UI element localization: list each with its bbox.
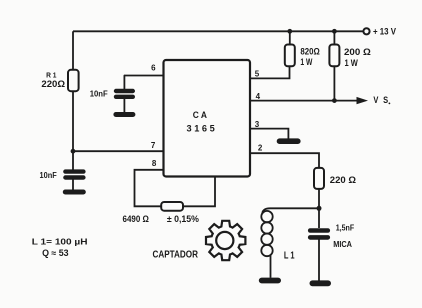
svg-text:220Ω: 220Ω: [41, 79, 65, 89]
svg-text:200 Ω: 200 Ω: [344, 47, 371, 57]
svg-text:6: 6: [151, 64, 156, 73]
ground below C1: [116, 112, 133, 117]
svg-text:7: 7: [151, 141, 156, 150]
wire pin 3 to ground: [250, 129, 288, 139]
svg-text:V: V: [373, 95, 378, 105]
inductor L1: [261, 211, 272, 256]
wire R5 right to IC bottom pin: [183, 177, 215, 207]
svg-text:820Ω: 820Ω: [300, 46, 319, 56]
svg-text:1 W: 1 W: [300, 57, 312, 67]
svg-text:2: 2: [258, 144, 263, 153]
wire pin 2 to resistor R4 top: [250, 153, 319, 168]
wire pin 5 to resistor R2 bottom: [250, 66, 290, 78]
svg-text:L 1: L 1: [284, 250, 295, 261]
svg-text:1,5nF: 1,5nF: [336, 223, 355, 232]
resistor R3 200 ohm: [329, 45, 339, 67]
wire R4 bottom to tank node: [318, 189, 320, 228]
svg-text:8: 8: [152, 159, 157, 168]
capacitor C3 1.5nF MICA: [310, 231, 328, 281]
wire pin 4 output line: [250, 100, 358, 102]
wire R3 top to rail: [333, 31, 335, 44]
wire pin 8 loop to resistor R5 6490 ohm: [135, 170, 164, 207]
ground below C3: [312, 280, 328, 286]
resistor R4 220 ohm: [314, 168, 324, 189]
wire R3 bottom to pin 4 line: [333, 66, 335, 100]
node junction R1/pin7/capacitor: [71, 149, 76, 154]
ground at pin 3: [280, 138, 298, 144]
svg-text:1 W: 1 W: [345, 58, 359, 68]
svg-text:5: 5: [255, 70, 260, 79]
svg-text:220 Ω: 220 Ω: [330, 175, 357, 186]
wire R2 top to rail: [289, 31, 291, 44]
svg-text:10nF: 10nF: [90, 90, 108, 99]
wire L1 bottom lead: [270, 255, 272, 278]
svg-text:L 1= 100 µH: L 1= 100 µH: [32, 237, 88, 247]
wire left vertical from rail to R1 top: [72, 31, 74, 70]
wire R1 bottom to node at pin 7 line: [72, 91, 74, 169]
svg-text:S: S: [383, 95, 388, 105]
capacitor C2 10nF lower-left: [65, 172, 83, 191]
resistor R2 820 ohm: [285, 45, 295, 67]
node junction tank circuit: [317, 206, 322, 211]
svg-text:CAPTADOR: CAPTADOR: [153, 249, 199, 260]
captador gear center hole: [216, 232, 233, 249]
svg-text:C A: C A: [193, 110, 207, 121]
op-amp U1 CA3165 box: [164, 60, 251, 177]
resistor R5 6490 ohm: [161, 202, 183, 211]
terminal +13V: [363, 28, 369, 34]
svg-text:+ 13 V: + 13 V: [373, 27, 396, 37]
svg-text:10nF: 10nF: [40, 170, 57, 180]
wire node to inductor L1 top: [262, 208, 319, 213]
subscript dot after S: [389, 103, 391, 105]
svg-text:MICA: MICA: [333, 240, 352, 249]
wire pin 6 from capacitor C1 to IC: [124, 75, 164, 77]
wire top rail from left branch to +13V terminal: [73, 30, 363, 32]
node junction R3 top on rail: [332, 29, 337, 34]
svg-text:± 0,15%: ± 0,15%: [167, 214, 199, 224]
svg-text:R 1: R 1: [46, 70, 56, 79]
ground below L1: [262, 278, 278, 284]
node junction R2 top on rail: [287, 29, 292, 34]
svg-text:Q ≈ 53: Q ≈ 53: [42, 248, 69, 258]
ground below C2: [65, 190, 83, 195]
capacitor C1 10nF at pin 6: [116, 76, 133, 113]
svg-text:6490 Ω: 6490 Ω: [123, 214, 150, 225]
wire pin 7 from node to IC: [73, 150, 164, 152]
svg-text:3 1 6 5: 3 1 6 5: [187, 124, 216, 135]
captador gear symbol: [206, 221, 245, 260]
svg-text:4: 4: [256, 92, 261, 101]
node junction R3 bottom on pin 4 line: [332, 98, 337, 103]
arrowhead output V S: [357, 97, 369, 104]
resistor R1: [68, 70, 79, 91]
